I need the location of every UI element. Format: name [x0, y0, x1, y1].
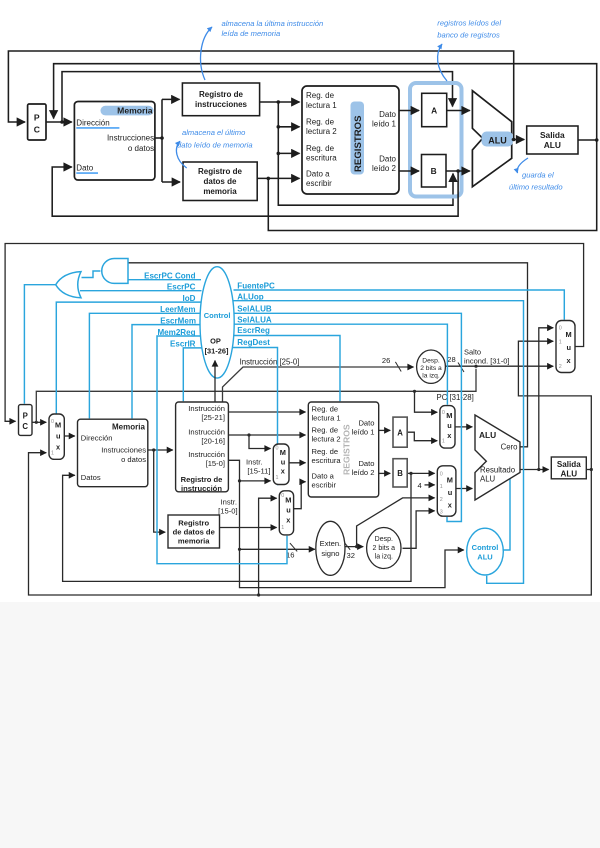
box B — [422, 155, 447, 188]
svg-text:Reg. de: Reg. de — [312, 404, 339, 413]
node: memoria output junction — [160, 136, 164, 140]
annotation: almacena el ultimo dato leido de memoria — [176, 128, 252, 168]
svg-text:B: B — [397, 469, 403, 478]
svg-text:REGISTROS: REGISTROS — [353, 115, 364, 172]
wire: A to ALU — [447, 110, 470, 112]
annotation: guarda el ultimo resultado — [509, 158, 563, 192]
svg-text:u: u — [567, 343, 572, 352]
svg-text:1: 1 — [440, 484, 443, 490]
box Memoria (bottom) — [78, 419, 148, 487]
svg-text:u: u — [447, 421, 452, 430]
ALU shape (top) — [472, 91, 511, 187]
svg-text:ALU: ALU — [560, 469, 577, 478]
svg-text:escribir: escribir — [306, 179, 332, 188]
wire: FuentePC to mux — [234, 290, 565, 320]
wire: Salida ALU loop to IoD mux input 1 — [29, 453, 592, 595]
svg-text:instrucción: instrucción — [181, 484, 222, 493]
svg-text:REGISTROS: REGISTROS — [342, 424, 352, 475]
svg-text:EscrMem: EscrMem — [160, 316, 196, 325]
box PC — [28, 104, 46, 140]
svg-text:Control: Control — [472, 543, 499, 552]
wire: Instr [5-0] funct to Control ALU — [240, 549, 464, 587]
wire: ALU result to FuentePC mux input 0 — [539, 328, 553, 470]
wire: Dato leido 2 to B — [379, 472, 391, 474]
wire: RegDest to mux below — [233, 348, 278, 486]
svg-text:Dato: Dato — [358, 418, 374, 427]
mux SelALUA — [440, 406, 455, 449]
svg-text:1: 1 — [442, 439, 445, 445]
svg-text:Exten.: Exten. — [320, 539, 342, 548]
svg-text:EscrPC: EscrPC — [167, 282, 196, 291]
wire: MDR output to register write data and Salida ALU loop — [257, 140, 597, 231]
wire: IoD to mux — [56, 302, 201, 414]
wire: IoD mux to Memoria — [64, 435, 75, 437]
svg-text:u: u — [286, 505, 291, 514]
wire: register outputs to A and B — [52, 111, 470, 217]
svg-text:Instrucciones: Instrucciones — [101, 445, 146, 454]
wire: MDR output to Mem2Reg mux input 1 — [220, 527, 277, 529]
wire: SelALUB mux to ALU — [456, 488, 472, 490]
wire: Mem2Reg mux output to Dato a escribir — [294, 482, 306, 509]
svg-text:lectura 1: lectura 1 — [312, 413, 341, 422]
wire: Memoria output to MDR — [154, 450, 166, 532]
svg-text:28: 28 — [447, 355, 455, 364]
ALU (bottom) — [475, 415, 520, 500]
wire: PC branch to SelALUA mux input 0 — [415, 391, 438, 412]
AND gate — [102, 259, 128, 284]
svg-text:de datos de: de datos de — [173, 527, 215, 536]
wire: PC to Memoria direccion — [46, 121, 72, 123]
svg-text:A: A — [397, 428, 403, 437]
svg-text:B: B — [431, 166, 437, 176]
svg-text:ALU: ALU — [479, 430, 496, 440]
svg-text:[15-0]: [15-0] — [206, 459, 225, 468]
wire: IR outputs to register file inputs — [260, 102, 453, 205]
Control ellipse — [200, 267, 234, 378]
svg-text:Instrucción: Instrucción — [188, 427, 225, 436]
box Memoria — [74, 102, 154, 181]
bit width 32 slash — [344, 542, 350, 550]
svg-text:M: M — [280, 448, 286, 457]
wire: Instr [15-11] to RegDest mux input 1 — [240, 480, 271, 482]
svg-text:almacena la última instrucción: almacena la última instrucción — [222, 19, 324, 28]
wire: Memoria output to IR — [148, 449, 173, 451]
svg-text:PC [31-28]: PC [31-28] — [437, 393, 474, 402]
wire: RegDest mux output to Reg de escritura — [289, 462, 306, 464]
svg-text:Dato a: Dato a — [312, 471, 335, 480]
svg-text:Reg. de: Reg. de — [312, 425, 339, 434]
wire: SelALUA to mux — [234, 324, 447, 405]
wire: Desp2 bottom output to SelALUB input 3 — [403, 511, 435, 548]
svg-text:Instr.: Instr. — [246, 458, 262, 467]
svg-text:Instrucciones: Instrucciones — [107, 134, 154, 143]
svg-text:lectura 2: lectura 2 — [306, 127, 337, 136]
svg-text:EscrIR: EscrIR — [170, 339, 196, 348]
svg-text:datos de: datos de — [204, 177, 237, 186]
svg-text:A: A — [431, 106, 437, 116]
wire: sign extend output to Desp2 (bottom) — [342, 546, 363, 548]
svg-text:M: M — [566, 330, 572, 339]
svg-text:Dato: Dato — [379, 110, 396, 119]
svg-text:Dato: Dato — [76, 164, 93, 173]
svg-text:Reg. de: Reg. de — [306, 118, 335, 127]
wire: A to SelALUA mux input 1 — [407, 432, 437, 441]
svg-text:[25-21]: [25-21] — [201, 413, 225, 422]
svg-text:Instr.: Instr. — [221, 498, 237, 507]
svg-text:o datos: o datos — [121, 455, 146, 464]
wire: EscrIR to IR — [183, 348, 203, 401]
svg-text:guarda el: guarda el — [522, 171, 554, 180]
wire: OP [31-26] into Control — [214, 361, 216, 403]
ellipse Desp 2 bits (top) — [417, 350, 446, 383]
wire: Memoria output to IR and MDR — [155, 99, 180, 182]
mux Mem2Reg — [279, 491, 293, 535]
wire: Desp2 top output to FuentePC mux input 2 — [445, 365, 553, 367]
svg-text:leído 1: leído 1 — [372, 120, 397, 129]
box A — [422, 93, 447, 126]
svg-text:Dirección: Dirección — [76, 119, 109, 128]
svg-text:Dirección: Dirección — [81, 433, 113, 442]
svg-text:2 bits a: 2 bits a — [373, 545, 396, 552]
svg-text:Memoria: Memoria — [117, 106, 153, 116]
svg-text:Desp.: Desp. — [422, 358, 440, 365]
svg-text:escritura: escritura — [306, 154, 337, 163]
svg-text:Registro de: Registro de — [181, 475, 223, 484]
ellipse Control ALU — [467, 528, 504, 575]
svg-text:banco de registros: banco de registros — [437, 31, 500, 40]
wire: B to Memoria Dato loop — [52, 167, 458, 216]
svg-text:Registro de: Registro de — [199, 90, 244, 99]
svg-text:RegDest: RegDest — [237, 338, 270, 347]
svg-text:32: 32 — [347, 551, 355, 560]
svg-text:ALU: ALU — [477, 552, 492, 561]
mux FuentePC — [556, 321, 575, 373]
wire: B to Memoria Datos loop — [63, 473, 411, 581]
wire: EscrReg to REGISTROS — [234, 336, 341, 402]
wire: sign extend to SelALUB input 2 — [357, 498, 435, 547]
svg-text:3: 3 — [440, 509, 443, 515]
svg-text:u: u — [56, 432, 61, 441]
svg-text:Salto: Salto — [464, 348, 481, 357]
svg-text:ALU: ALU — [488, 136, 507, 146]
wire: Cero to AND gate — [129, 263, 528, 447]
wire: Salida ALU output stub — [586, 469, 591, 471]
svg-text:C: C — [34, 125, 40, 135]
annotation: registros leidos del banco de registros — [437, 19, 501, 82]
svg-text:u: u — [448, 488, 453, 497]
wire: Salida ALU to FuentePC mux input 1 — [518, 341, 591, 469]
box Registro de datos de memoria (bottom) — [168, 515, 220, 548]
wire: ALU to Salida ALU — [512, 139, 525, 141]
svg-text:0: 0 — [51, 419, 54, 425]
svg-text:o datos: o datos — [128, 144, 154, 153]
wire: PC to SelALUA line (PC[31-28]) — [36, 369, 476, 423]
svg-text:escribir: escribir — [312, 480, 337, 489]
wire: ALU result feedback to PC (top loop) — [8, 51, 513, 140]
wire: Instr [15-0] to sign extend — [240, 548, 315, 550]
svg-text:Instrucción [25-0]: Instrucción [25-0] — [240, 357, 300, 366]
svg-text:memoria: memoria — [178, 536, 210, 545]
svg-text:memoria: memoria — [203, 187, 237, 196]
svg-text:ALU: ALU — [544, 140, 561, 150]
svg-text:lectura 1: lectura 1 — [306, 101, 337, 110]
wire: SelALUA mux to ALU — [455, 426, 472, 428]
svg-text:Dato a: Dato a — [306, 169, 330, 178]
svg-text:leída de memoria: leída de memoria — [222, 29, 281, 38]
svg-text:1: 1 — [559, 340, 562, 346]
wire: B to SelALUB mux input 0 — [407, 472, 434, 474]
mux RegDest — [273, 444, 289, 485]
svg-text:OP: OP — [210, 337, 221, 346]
svg-text:Cero: Cero — [501, 443, 519, 452]
box Registro de datos de memoria (top) — [183, 162, 257, 201]
svg-text:leído 2: leído 2 — [352, 468, 375, 477]
svg-text:Instrucción: Instrucción — [188, 450, 225, 459]
box PC (bottom) — [19, 405, 33, 436]
svg-text:SelALUB: SelALUB — [237, 305, 272, 314]
svg-text:signo: signo — [321, 549, 339, 558]
svg-text:Reg. de: Reg. de — [312, 447, 339, 456]
wire: PC to ALU input 1 loop — [62, 72, 453, 122]
wire: FuentePC mux output to PC (outer top loop) — [5, 244, 584, 422]
wire: EscrMem to Memoria — [132, 325, 201, 419]
svg-text:4: 4 — [418, 481, 422, 490]
wire: instruction [25-0] jump line — [223, 367, 414, 402]
svg-text:2: 2 — [559, 364, 562, 370]
svg-text:Datos: Datos — [81, 473, 101, 482]
svg-text:0: 0 — [276, 445, 279, 451]
svg-text:1: 1 — [51, 450, 54, 456]
box REGISTROS — [302, 86, 399, 194]
svg-text:Registro de: Registro de — [198, 167, 243, 176]
svg-text:Reg. de: Reg. de — [306, 144, 335, 153]
svg-text:FuentePC: FuentePC — [237, 282, 275, 291]
svg-text:Registro: Registro — [178, 518, 209, 527]
wire: Control ALU output to ALU — [503, 478, 510, 550]
svg-text:1: 1 — [276, 475, 279, 481]
svg-text:Mem2Reg: Mem2Reg — [157, 328, 195, 337]
annotation: almacena la ultima instruccion leida de memoria — [201, 19, 324, 80]
wire: IR [15-0] down line — [228, 460, 239, 549]
svg-text:P: P — [23, 412, 28, 421]
svg-text:IoD: IoD — [183, 294, 196, 303]
svg-text:M: M — [285, 495, 291, 504]
box REGISTROS (bottom) — [308, 402, 378, 497]
box Registro de instruccion — [176, 402, 229, 493]
wire: IR [20-16] branch to RegDest mux input 0 — [249, 435, 271, 449]
svg-text:LeerMem: LeerMem — [160, 305, 195, 314]
grey footer band — [0, 602, 600, 848]
svg-text:[20-16]: [20-16] — [201, 436, 225, 445]
svg-text:Reg. de: Reg. de — [306, 91, 335, 100]
mux IoD — [49, 414, 64, 459]
svg-text:Desp.: Desp. — [375, 536, 393, 543]
wire: B to ALU — [446, 170, 470, 172]
svg-text:2 bits a: 2 bits a — [420, 365, 442, 372]
box Salida ALU (top) — [527, 126, 578, 154]
blue frame around A and B — [410, 83, 462, 197]
wire: Mem2Reg to mux below — [157, 336, 287, 564]
svg-text:0: 0 — [559, 326, 562, 332]
svg-text:leído 1: leído 1 — [352, 427, 375, 436]
svg-text:1: 1 — [281, 525, 284, 531]
svg-text:2: 2 — [440, 497, 443, 503]
wire: EscrPC Cond to AND gate — [129, 279, 202, 281]
wire: IR [20-16] to reg lectura 2 — [228, 434, 305, 436]
wire: IR [25-21] to reg lectura 1 — [228, 411, 305, 413]
wire: ALU result to Salida ALU — [520, 469, 549, 471]
svg-text:M: M — [55, 421, 61, 430]
svg-text:EscrReg: EscrReg — [237, 326, 270, 335]
svg-text:EscrPC Cond: EscrPC Cond — [144, 271, 196, 280]
mux SelALUB — [437, 466, 456, 516]
wire: Salida ALU feedback to memory address — [54, 64, 597, 140]
box A (bottom) — [393, 417, 407, 447]
OR gate — [56, 272, 81, 298]
svg-text:M: M — [446, 411, 452, 420]
svg-text:Instrucción: Instrucción — [188, 404, 225, 413]
wire: Dato leido 1 to A — [379, 429, 391, 431]
svg-text:u: u — [281, 457, 286, 466]
svg-text:Salida: Salida — [540, 130, 565, 140]
svg-text:C: C — [22, 422, 28, 431]
svg-text:dato leído de memoria: dato leído de memoria — [177, 141, 253, 150]
box Salida ALU (bottom) — [551, 457, 586, 479]
wire: AND output to OR input — [82, 271, 101, 278]
svg-text:Memoria: Memoria — [112, 423, 145, 432]
svg-text:escritura: escritura — [312, 456, 342, 465]
svg-text:leído 2: leído 2 — [372, 164, 397, 173]
svg-text:0: 0 — [442, 410, 445, 416]
svg-text:Salida: Salida — [557, 460, 581, 469]
svg-text:26: 26 — [382, 356, 390, 365]
bit width 16 slash — [290, 543, 297, 551]
svg-text:[15-11]: [15-11] — [247, 467, 270, 476]
svg-text:[15-0]: [15-0] — [218, 507, 237, 516]
svg-text:registros leídos del: registros leídos del — [437, 19, 501, 28]
svg-text:[31-26]: [31-26] — [205, 347, 229, 356]
wire: PC output to IoD mux — [32, 421, 46, 423]
svg-text:P: P — [34, 113, 40, 123]
svg-text:ALU: ALU — [480, 475, 496, 484]
wire: Salida ALU loop branch to Mem2Reg mux input 0 — [259, 498, 277, 595]
wire: ALUop to Control ALU — [234, 301, 524, 584]
wire: LeerMem to Memoria — [89, 313, 200, 418]
wire: SelALUB to mux below — [234, 313, 462, 521]
svg-text:ALUop: ALUop — [237, 293, 263, 302]
svg-text:instrucciones: instrucciones — [195, 100, 248, 109]
svg-text:M: M — [447, 475, 453, 484]
svg-text:lectura 2: lectura 2 — [312, 434, 341, 443]
svg-text:0: 0 — [440, 472, 443, 478]
svg-text:incond. [31-0]: incond. [31-0] — [464, 357, 509, 366]
wire: Salida ALU output — [578, 139, 597, 141]
svg-text:Control: Control — [204, 311, 231, 320]
node: junction PC-mem wire — [60, 120, 64, 124]
box B (bottom) — [393, 459, 407, 487]
wire: EscrPC to OR gate — [80, 290, 202, 292]
wire: OR output to PC write — [24, 285, 55, 404]
svg-text:último resultado: último resultado — [509, 183, 563, 192]
svg-text:almacena el último: almacena el último — [182, 128, 245, 137]
svg-text:Dato: Dato — [379, 155, 396, 164]
box Registro de instrucciones — [182, 83, 259, 116]
svg-text:Dato: Dato — [358, 459, 374, 468]
svg-text:0: 0 — [281, 493, 284, 499]
ellipse Exten signo — [316, 521, 345, 575]
svg-text:la izq.: la izq. — [375, 554, 393, 561]
svg-text:la izq.: la izq. — [422, 373, 440, 380]
ellipse Desp 2 bits (bottom) — [367, 528, 401, 569]
svg-text:SelALUA: SelALUA — [237, 316, 272, 325]
svg-text:Resultado: Resultado — [480, 466, 516, 475]
